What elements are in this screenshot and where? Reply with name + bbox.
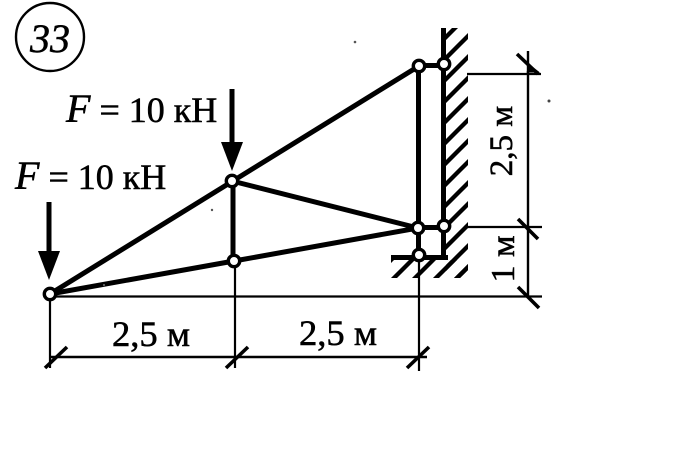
node D2 [438, 220, 449, 231]
member B to D1 (diagonal) [232, 181, 418, 228]
member T1 to T2 (short link) [419, 63, 444, 68]
member D1 to D3 (short vertical) [416, 228, 421, 255]
tick bottom-middle [226, 347, 248, 368]
svg-text:1 м: 1 м [485, 235, 522, 282]
svg-text:2,5 м: 2,5 м [484, 106, 520, 177]
node A [44, 288, 55, 299]
tick bottom-left [45, 347, 67, 368]
tick bottom-right [407, 347, 429, 368]
extension line below node A [49, 300, 51, 368]
bottom support hatch [391, 260, 468, 278]
node T2 [438, 58, 449, 69]
support line under node D3 [391, 255, 448, 260]
tick at bottom of right dimension [518, 287, 539, 308]
scan speck [548, 100, 551, 103]
force arrow F2 (middle) [221, 89, 243, 171]
top extension line from wall [467, 73, 541, 75]
node D3 [413, 249, 424, 260]
scan speck [354, 41, 357, 44]
long horizontal extension line at level of node A [52, 295, 542, 297]
wall face line [441, 28, 446, 258]
middle extension line from wall [464, 226, 542, 228]
node D1 [412, 222, 423, 233]
horizontal dimension line (bottom) [50, 356, 427, 358]
scan speck [211, 209, 213, 211]
node B [226, 175, 237, 186]
svg-text:F = 10 кН: F = 10 кН [14, 153, 166, 198]
svg-text:F = 10 кН: F = 10 кН [65, 86, 217, 131]
member D1 to D2 (short link) [418, 225, 444, 230]
tick wedge detail at top of right dimension [527, 64, 541, 73]
problem number circle [16, 3, 84, 71]
member C to D1 (bottom chord right) [234, 228, 418, 261]
extension line below node D3 [418, 262, 420, 371]
member A to C (bottom chord left) [50, 261, 234, 294]
svg-text:33: 33 [29, 16, 70, 61]
wall hatch strip (right) [446, 28, 468, 278]
vertical dimension line (right) [527, 51, 529, 298]
member B to C (vertical) [231, 181, 236, 261]
force arrow F1 (left) [38, 202, 60, 280]
svg-text:2,5 м: 2,5 м [112, 314, 190, 354]
node C [228, 255, 239, 266]
svg-text:2,5 м: 2,5 м [299, 313, 377, 353]
node T1 [413, 60, 424, 71]
tick at top of right dimension [517, 54, 538, 74]
tick at middle of right dimension [518, 219, 538, 239]
scan speck [103, 284, 105, 286]
member A to T1 (top chord through B) [50, 66, 419, 294]
extension line below node C [234, 263, 236, 368]
member T1 to D1 (vertical) [416, 66, 421, 228]
